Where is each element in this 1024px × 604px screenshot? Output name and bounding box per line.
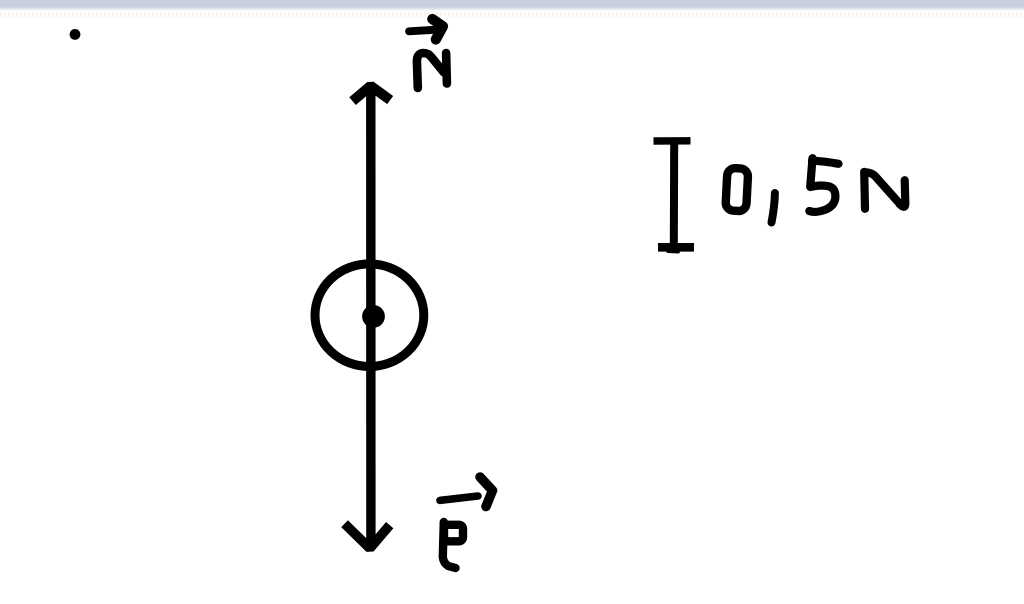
scale I-beam top cap [654,137,691,145]
label N letter [417,53,444,88]
center dot [362,305,385,328]
scale I-beam bottom cap [658,243,694,252]
stray dot top-left [70,29,81,40]
arrowhead N up [356,86,386,98]
comma [772,193,775,223]
digit 5 [812,161,839,164]
wire force line vertical [366,86,376,546]
scale I-beam vertical [670,140,678,248]
digit 0 [725,168,748,212]
label P letter [443,522,456,568]
perforation tick row [0,12,1024,17]
arrowhead P down [348,527,387,548]
scale I-beam nub [668,249,678,254]
toolbar strip top [0,0,1024,11]
label N vector arrow [409,30,435,32]
circle object [315,264,424,367]
label P vector arrow [440,496,478,500]
unit N [860,172,869,209]
